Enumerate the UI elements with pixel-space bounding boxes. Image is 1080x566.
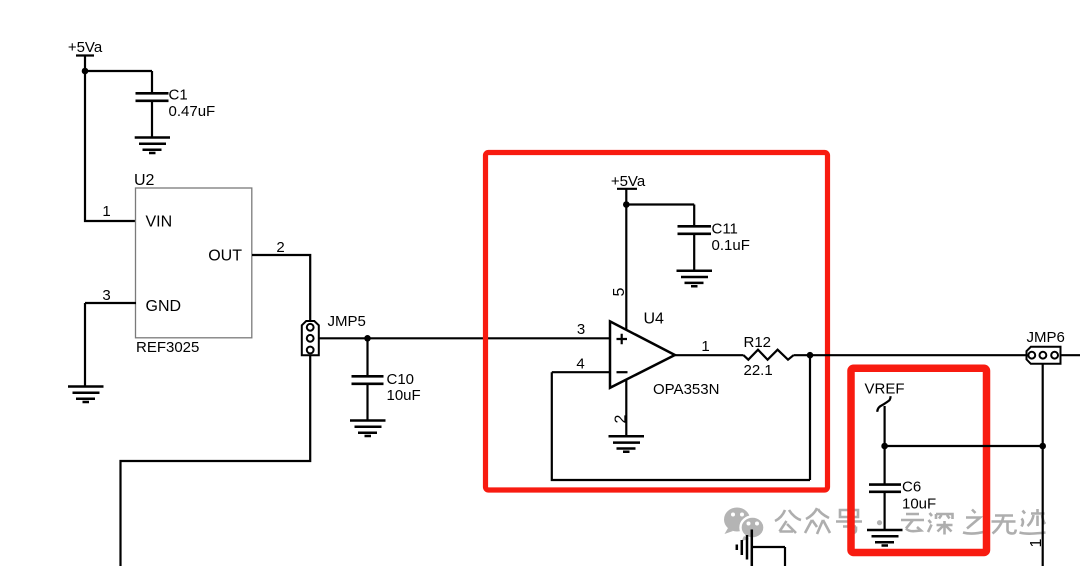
connector JMP6	[1027, 347, 1061, 364]
svg-text:GND: GND	[146, 298, 182, 315]
capacitor C1	[136, 93, 169, 101]
resistor R12	[744, 350, 794, 360]
svg-text:C6: C6	[902, 479, 921, 496]
connector JMP5	[302, 321, 319, 355]
watermark char 深	[928, 513, 953, 535]
wire JMP6 right to edge	[1061, 354, 1080, 356]
wire +5Va to U2 pin1	[85, 71, 136, 221]
watermark char 之	[963, 510, 986, 534]
svg-text:VIN: VIN	[146, 214, 173, 231]
ground under C10	[350, 421, 386, 437]
capacitor C6	[869, 485, 901, 492]
ground under C11	[677, 271, 713, 287]
svg-text:4: 4	[576, 356, 584, 373]
wire U2 OUT to JMP5	[252, 255, 310, 322]
svg-text:10uF: 10uF	[387, 387, 421, 404]
red highlight box 1	[486, 153, 828, 491]
wire JMP5 down-left to bottom edge	[121, 355, 311, 566]
svg-text:3: 3	[102, 287, 110, 304]
wire JMP6 down to bottom edge	[1042, 364, 1044, 566]
svg-text:2: 2	[612, 415, 629, 424]
power +5Va (U4) bar symbol	[617, 189, 637, 205]
watermark char 迹	[1020, 509, 1046, 534]
svg-text:+5Va: +5Va	[68, 39, 103, 56]
svg-text:R12: R12	[744, 334, 772, 351]
svg-text:10uF: 10uF	[902, 496, 936, 513]
node junction after R12	[807, 352, 814, 359]
ground under op-amp	[609, 436, 645, 452]
svg-text:OUT: OUT	[208, 247, 242, 264]
watermark middle dot	[877, 520, 882, 525]
watermark char 公	[775, 510, 801, 533]
svg-text:JMP6: JMP6	[1027, 329, 1065, 346]
wire U2 GND pin	[85, 303, 136, 386]
wire +5Va to op-amp pin5	[625, 205, 627, 331]
plus input marker	[617, 334, 628, 345]
wire +5Va to C1	[85, 71, 152, 93]
svg-text:0.1uF: 0.1uF	[712, 237, 750, 254]
wire from rotated ground	[752, 547, 785, 566]
watermark char 众	[805, 508, 830, 534]
node junction at +5Va left	[82, 68, 89, 75]
IC U2 body	[136, 188, 252, 338]
svg-text:C10: C10	[387, 371, 415, 388]
svg-text:22.1: 22.1	[744, 362, 773, 379]
node junction on JMP6 wire	[1039, 443, 1046, 450]
svg-text:0.47uF: 0.47uF	[169, 103, 216, 120]
wire junction to C10	[366, 338, 368, 375]
ground under C6	[867, 530, 903, 546]
svg-text:C1: C1	[169, 87, 188, 104]
svg-text:U2: U2	[134, 172, 155, 189]
wire VREF junction to JMP6 branch	[885, 445, 1043, 447]
wire junction to C6	[883, 446, 885, 484]
wire R12 to junction	[794, 354, 1026, 356]
capacitor C11	[678, 226, 712, 234]
node junction VREF	[881, 443, 888, 450]
svg-text:3: 3	[577, 321, 585, 338]
net squiggle symbol	[877, 396, 890, 412]
ground under U2 GND	[68, 387, 104, 403]
watermark char 号	[836, 510, 862, 533]
svg-text:C11: C11	[712, 221, 738, 238]
svg-text:1: 1	[1028, 539, 1045, 548]
wire JMP5 to op-amp +input	[319, 337, 610, 339]
red highlight box 2	[851, 368, 987, 552]
svg-text:5: 5	[611, 288, 628, 297]
wire op-amp pin2 to ground	[625, 380, 627, 436]
svg-text:REF3025: REF3025	[136, 339, 199, 356]
node junction at C10	[364, 335, 371, 342]
ground under C1	[135, 138, 170, 154]
svg-text:1: 1	[701, 338, 709, 355]
svg-text:+5Va: +5Va	[611, 173, 646, 190]
watermark wechat icon big bubble	[724, 508, 750, 535]
wire op-amp -input / feedback	[552, 355, 810, 480]
capacitor C10	[352, 376, 384, 384]
wire op-amp out to R12	[675, 354, 744, 356]
svg-text:1: 1	[102, 203, 110, 220]
power +5Va (left) bar symbol	[76, 56, 94, 72]
wire VREF to C6	[883, 406, 885, 446]
watermark char 无	[992, 516, 1016, 534]
svg-text:U4: U4	[644, 311, 665, 328]
wire +5Va to C11	[626, 205, 694, 226]
svg-text:JMP5: JMP5	[328, 313, 366, 330]
node junction at +5Va U4	[623, 201, 630, 208]
watermark wechat icon small bubble	[741, 517, 765, 542]
svg-text:2: 2	[276, 239, 284, 256]
ground (rotated, bottom centre)	[737, 530, 752, 566]
svg-text:VREF: VREF	[865, 381, 905, 398]
watermark char 云	[901, 514, 924, 531]
op-amp U4 triangle	[610, 321, 675, 387]
svg-text:OPA353N: OPA353N	[653, 381, 719, 398]
minus input marker	[617, 371, 628, 373]
